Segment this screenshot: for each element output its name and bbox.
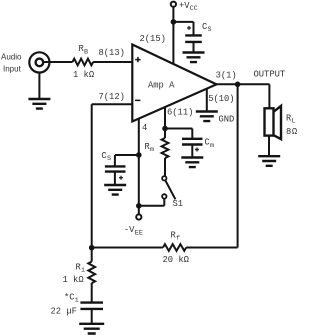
svg-text:8(13): 8(13) (99, 48, 125, 58)
svg-text:S1: S1 (173, 199, 184, 209)
svg-text:-V: -V (124, 225, 135, 235)
svg-text:7(12): 7(12) (99, 92, 125, 102)
svg-text:8: 8 (286, 127, 291, 137)
svg-text:GND: GND (219, 114, 235, 124)
svg-text:*C: *C (64, 293, 75, 303)
svg-text:L: L (292, 118, 296, 126)
svg-text:4: 4 (142, 123, 147, 133)
svg-text:m: m (150, 146, 154, 154)
svg-text:i: i (75, 297, 79, 305)
svg-text:m: m (210, 142, 214, 150)
svg-text:3(1): 3(1) (216, 70, 237, 80)
svg-text:1 kΩ: 1 kΩ (63, 275, 85, 285)
svg-text:+V: +V (179, 1, 190, 11)
svg-text:CC: CC (190, 5, 198, 13)
svg-text:S: S (107, 155, 111, 163)
svg-text:Ω: Ω (292, 127, 298, 137)
svg-text:20 kΩ: 20 kΩ (163, 255, 190, 265)
svg-text:C: C (202, 22, 207, 32)
svg-text:5(10): 5(10) (208, 94, 234, 104)
svg-text:OUTPUT: OUTPUT (254, 70, 286, 80)
svg-text:C: C (205, 138, 210, 148)
svg-text:B: B (84, 48, 88, 56)
svg-text:f: f (176, 235, 180, 243)
svg-text:1 kΩ: 1 kΩ (73, 70, 95, 80)
svg-text:22 µF: 22 µF (51, 306, 77, 316)
svg-text:Amp A: Amp A (148, 81, 175, 91)
svg-text:Input: Input (3, 65, 22, 74)
svg-text:S: S (208, 26, 212, 34)
svg-text:i: i (81, 267, 85, 275)
svg-text:2(15): 2(15) (140, 34, 166, 44)
svg-text:Audio: Audio (1, 53, 22, 62)
svg-text:EE: EE (135, 229, 143, 237)
svg-text:C: C (102, 151, 107, 161)
svg-text:6(11): 6(11) (167, 107, 193, 117)
